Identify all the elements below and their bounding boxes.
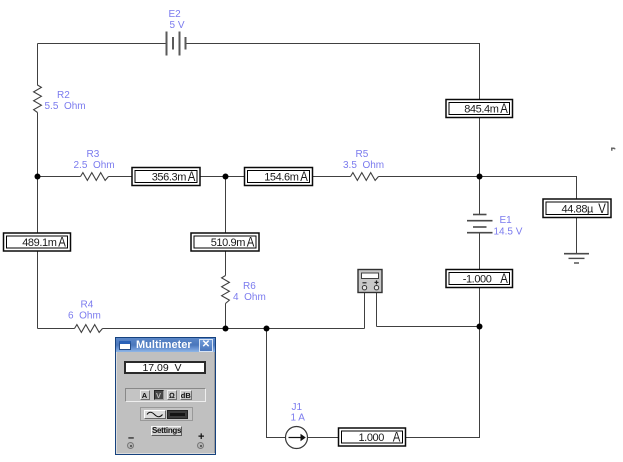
svg-text:1 A: 1 A	[291, 413, 306, 424]
svg-text:A: A	[500, 271, 508, 286]
ammeter M7 1.000 A	[339, 428, 406, 446]
resistor R3	[81, 173, 109, 181]
wire from J1 left up to bottom node	[267, 329, 286, 438]
wire middle horizontal right segment to voltmeter	[379, 177, 577, 200]
window icon	[119, 341, 131, 350]
svg-text:E1: E1	[500, 215, 513, 226]
svg-text:6 Ohm: 6 Ohm	[68, 311, 101, 322]
battery E2	[167, 32, 186, 56]
button A	[140, 390, 150, 400]
wire left rail lower	[37, 113, 39, 329]
svg-text:44.88µ: 44.88µ	[562, 204, 595, 216]
ammeter M3 154.6mA	[245, 168, 313, 186]
junction node right rail bottom	[477, 324, 483, 330]
svg-text:A: A	[58, 235, 66, 250]
svg-text:A: A	[300, 169, 308, 184]
ammeter M5 510.9mA	[191, 233, 259, 251]
cursor mark	[611, 148, 615, 151]
resistor R2	[34, 85, 42, 113]
wire top-left from left rail to battery E2	[38, 43, 167, 45]
battery E1	[467, 215, 493, 233]
junction node at right-middle	[477, 174, 483, 180]
svg-text:R3: R3	[87, 149, 100, 160]
svg-text:1.000: 1.000	[358, 432, 384, 444]
ammeter M2 356.3mA	[132, 168, 200, 186]
button Ohm	[167, 390, 177, 400]
ammeter M4 489.1mA	[4, 233, 71, 251]
svg-text:A: A	[188, 169, 196, 184]
current source J1	[286, 427, 308, 449]
svg-text:489.1m: 489.1m	[22, 237, 57, 249]
svg-text:154.6m: 154.6m	[264, 172, 299, 184]
wire bottom horizontal after R4 to multimeter minus lead	[103, 328, 365, 330]
svg-text:R6: R6	[243, 281, 256, 292]
wire right rail lower and bottom-right horizontal	[406, 233, 480, 438]
svg-text:R4: R4	[81, 300, 94, 311]
svg-text:-1.000: -1.000	[463, 274, 492, 286]
AC button with sine	[144, 410, 166, 420]
multimeter instrument XMM1	[358, 270, 382, 293]
resistor R6	[222, 276, 230, 304]
wire from multimeter plus to right rail	[377, 326, 480, 328]
wire middle horizontal center segment	[109, 176, 351, 178]
svg-text:5 V: 5 V	[170, 20, 185, 31]
ammeter M6 -1.000 A	[446, 270, 513, 288]
svg-text:A: A	[393, 430, 401, 445]
svg-text:14.5 V: 14.5 V	[494, 227, 523, 238]
junction node bottom J1 branch	[264, 326, 270, 332]
svg-text:A: A	[247, 235, 255, 250]
svg-text:V: V	[598, 201, 606, 216]
svg-text:A: A	[500, 101, 508, 116]
svg-text:2.5 Ohm: 2.5 Ohm	[74, 160, 115, 171]
wire middle vertical branch	[225, 177, 227, 276]
resistor R4	[75, 325, 103, 333]
plus terminal sign	[198, 431, 204, 443]
button V pressed	[154, 390, 164, 400]
ground	[564, 254, 589, 263]
wire middle vertical below R6	[225, 304, 227, 329]
wire voltmeter to ground	[576, 218, 578, 254]
resistor R5	[351, 173, 379, 181]
svg-text:4 Ohm: 4 Ohm	[233, 292, 266, 303]
svg-text:E2: E2	[169, 9, 182, 20]
junction node bottom of R6	[223, 326, 229, 332]
svg-text:R2: R2	[57, 90, 70, 101]
minus terminal	[127, 442, 134, 449]
waveform panel	[140, 407, 193, 421]
multimeter dialog window	[115, 337, 216, 455]
window title text	[136, 339, 192, 351]
readout display 17.09 V	[124, 361, 206, 375]
wire bottom-left horizontal	[38, 328, 75, 330]
wire multimeter minus lead	[364, 293, 366, 329]
minus terminal sign	[128, 432, 134, 444]
window title bar	[116, 338, 215, 352]
svg-text:510.9m: 510.9m	[211, 237, 246, 249]
wire multimeter plus lead	[376, 293, 378, 327]
junction node at center-middle	[223, 174, 229, 180]
voltmeter M8 44.88u V	[543, 199, 611, 218]
wire from ammeter M7 to current source J1	[308, 437, 339, 439]
svg-text:356.3m: 356.3m	[152, 172, 187, 184]
wire left rail upper	[37, 44, 39, 86]
svg-text:5.5 Ohm: 5.5 Ohm	[45, 101, 86, 112]
settings button	[151, 426, 182, 437]
svg-text:R5: R5	[356, 149, 369, 160]
ammeter M1 845.4mA	[446, 100, 513, 118]
svg-text:3.5 Ohm: 3.5 Ohm	[343, 160, 384, 171]
DC button	[167, 410, 188, 419]
svg-text:845.4m: 845.4m	[464, 104, 499, 116]
junction node at left-middle	[35, 174, 41, 180]
svg-text:J1: J1	[292, 402, 303, 413]
window close button	[199, 339, 213, 352]
mode buttons panel	[125, 388, 206, 402]
wire middle horizontal left segment	[38, 176, 81, 178]
plus terminal	[197, 442, 204, 449]
wire top-right from battery E2 to right rail and down to E1	[186, 44, 480, 215]
button dB	[180, 390, 193, 400]
